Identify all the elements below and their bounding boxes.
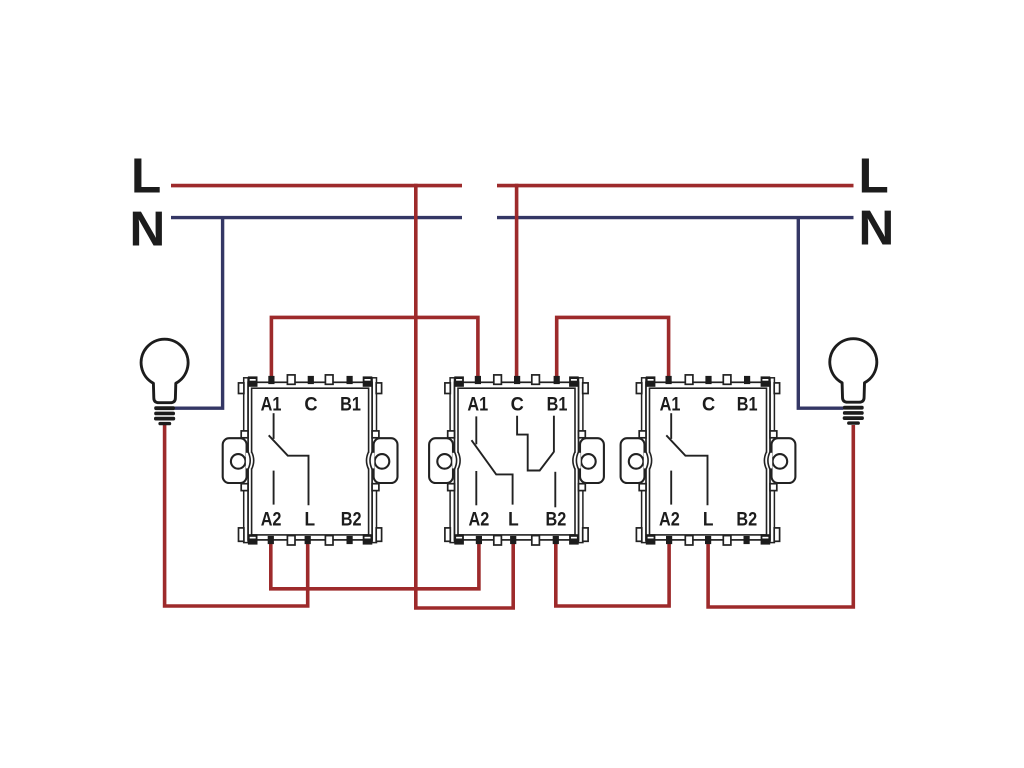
switch S3 mounting ear left <box>621 438 645 483</box>
switch S3 side plates <box>642 378 775 543</box>
svg-text:C: C <box>304 394 317 416</box>
svg-text:A2: A2 <box>659 509 680 531</box>
switch S2 fixing tabs <box>494 375 540 545</box>
switch S3 ear spring chevrons <box>644 452 772 469</box>
label N (left neutral) <box>130 202 166 257</box>
svg-text:L: L <box>859 148 889 203</box>
label L (left live) <box>131 149 161 204</box>
switch S2 terminal label B1 (top) <box>547 394 568 416</box>
switch S3 terminal label B2 (bottom) <box>736 509 757 531</box>
switch S2 frame inner <box>458 388 575 535</box>
switch S1 terminal label B1 (top) <box>340 394 361 416</box>
switch S1 terminal label C (top) <box>304 394 317 416</box>
switch S1 contact lead A1 <box>273 413 275 439</box>
switch S1 terminal label L (bottom) <box>305 509 316 531</box>
svg-text:C: C <box>511 394 524 416</box>
switch S2 side clips <box>445 383 588 541</box>
switch S1 switch lever A1-L <box>269 435 309 505</box>
switch S1 corner screws <box>248 376 372 544</box>
wire S3 terminal L to lamp E2 <box>708 425 853 607</box>
svg-text:B2: B2 <box>736 509 757 531</box>
wire lamp E1 to S1 terminal L <box>165 424 308 607</box>
switch S1 frame inner <box>252 388 369 535</box>
switch S1 terminal pins <box>268 376 353 544</box>
svg-text:B1: B1 <box>547 394 568 416</box>
switch S2 mounting ear left <box>429 438 453 483</box>
svg-text:L: L <box>305 509 316 531</box>
label L (right live) <box>859 148 889 203</box>
wire neutral rail N left segment <box>171 216 462 219</box>
svg-text:A1: A1 <box>660 394 681 416</box>
switch S1 terminal label A1 (top) <box>261 394 282 416</box>
switch S3 mounting ear right <box>772 438 796 483</box>
switch S2 contact lead B1 <box>553 416 555 453</box>
switch S3 terminal label C (top) <box>702 394 715 416</box>
switch S3 contact lead A1 <box>670 413 672 439</box>
wire live drop from right rail to switch S2 terminal C <box>515 184 519 378</box>
wire neutral rail N right segment <box>497 216 854 219</box>
switch S2 terminal label L (bottom) <box>508 509 519 531</box>
switch S2 corner screws <box>454 376 578 544</box>
svg-text:A1: A1 <box>261 394 282 416</box>
switch S1 frame outer <box>248 382 372 540</box>
switch S1 side plates <box>244 378 377 543</box>
lamp E2 bulb <box>830 339 877 425</box>
switch S3 frame outer <box>646 382 770 540</box>
svg-text:N: N <box>130 202 166 257</box>
wire S1 terminal A2 to S2 terminal A2 <box>271 542 479 589</box>
switch S3 terminal label B1 (top) <box>737 394 758 416</box>
switch S1 terminal label B2 (bottom) <box>341 509 362 531</box>
svg-text:B2: B2 <box>341 509 362 531</box>
switch S2 frame outer <box>455 382 579 540</box>
switch S3 side clips <box>636 383 779 541</box>
wire link S1 terminal A1 to S2 terminal A1 <box>271 317 478 377</box>
wire live drop from left rail to switch S2 terminal L <box>416 184 513 608</box>
switch S3 terminal pins <box>666 376 751 544</box>
label N (right neutral) <box>859 201 895 256</box>
switch S1 ear spring chevrons <box>246 452 374 469</box>
switch S3 corner screws <box>646 376 770 544</box>
wire live rail L left segment <box>171 184 462 188</box>
svg-text:L: L <box>131 149 161 204</box>
wire link S2 terminal B1 to S3 terminal A1 <box>557 317 669 377</box>
switch S2 contact lead A1 <box>475 416 477 444</box>
switch S2 contact stub B2 <box>554 472 556 508</box>
lamp E1 bulb <box>141 339 188 425</box>
switch S3 fixing tabs <box>685 375 731 545</box>
switch S3 terminal label A2 (bottom) <box>659 509 680 531</box>
switch S2 terminal label C (top) <box>511 394 524 416</box>
switch S2 side plates <box>450 378 583 543</box>
svg-text:B2: B2 <box>546 509 567 531</box>
svg-text:L: L <box>508 509 519 531</box>
svg-text:C: C <box>702 394 715 416</box>
svg-text:L: L <box>703 509 714 531</box>
switch S3 contact stub A2 <box>670 471 672 505</box>
wire S2 terminal B2 to S3 terminal A2 <box>556 542 669 607</box>
wire live rail L right segment <box>497 184 854 188</box>
switch S1 mounting ear right <box>374 438 398 483</box>
switch S2 ear spring chevrons <box>452 452 580 469</box>
switch S1 side clips <box>239 383 382 541</box>
switch S1 contact stub A2 <box>273 471 275 505</box>
svg-text:A1: A1 <box>467 394 488 416</box>
switch S2 contact stub A2 <box>475 471 477 505</box>
switch S1 terminal label A2 (bottom) <box>261 509 282 531</box>
switch S1 fixing tabs <box>287 375 333 545</box>
wire neutral drop to lamp E2 <box>798 218 843 409</box>
switch S1 mounting ear left <box>223 438 247 483</box>
switch S3 frame inner <box>650 388 767 535</box>
wire neutral drop to lamp E1 <box>175 218 223 409</box>
svg-text:A2: A2 <box>261 509 282 531</box>
switch S3 switch lever A1-L <box>666 435 707 505</box>
switch S3 terminal label A1 (top) <box>660 394 681 416</box>
switch S2 terminal label A2 (bottom) <box>469 509 490 531</box>
svg-text:B1: B1 <box>340 394 361 416</box>
switch S3 terminal label L (bottom) <box>703 509 714 531</box>
switch S2 terminal label A1 (top) <box>467 394 488 416</box>
svg-text:B1: B1 <box>737 394 758 416</box>
svg-text:A2: A2 <box>469 509 490 531</box>
switch S2 contact path C <box>517 416 554 471</box>
switch S2 mounting ear right <box>580 438 604 483</box>
switch S2 terminal pins <box>475 376 560 544</box>
switch S2 switch lever A1-L <box>472 440 513 504</box>
svg-text:N: N <box>859 201 895 256</box>
switch S2 terminal label B2 (bottom) <box>546 509 567 531</box>
